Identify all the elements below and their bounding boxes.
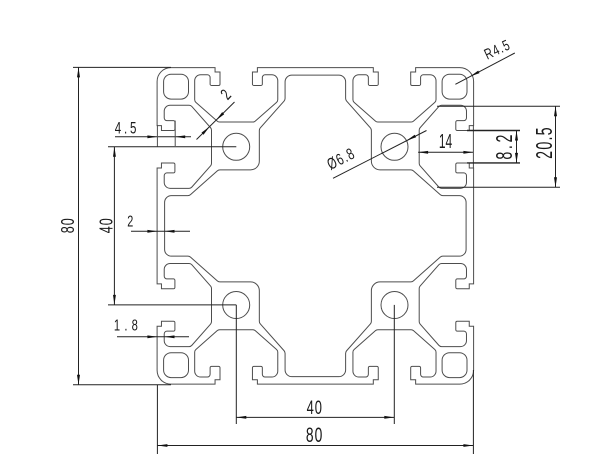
svg-text:80: 80 [306, 423, 323, 447]
svg-text:40: 40 [97, 217, 117, 233]
svg-text:14: 14 [439, 131, 452, 153]
svg-text:8.2: 8.2 [493, 132, 518, 160]
svg-text:2: 2 [127, 213, 134, 230]
svg-text:20.5: 20.5 [533, 126, 558, 159]
svg-text:1.8: 1.8 [114, 315, 142, 334]
svg-text:80: 80 [59, 217, 79, 233]
svg-text:4.5: 4.5 [115, 119, 139, 138]
svg-text:40: 40 [307, 398, 323, 419]
